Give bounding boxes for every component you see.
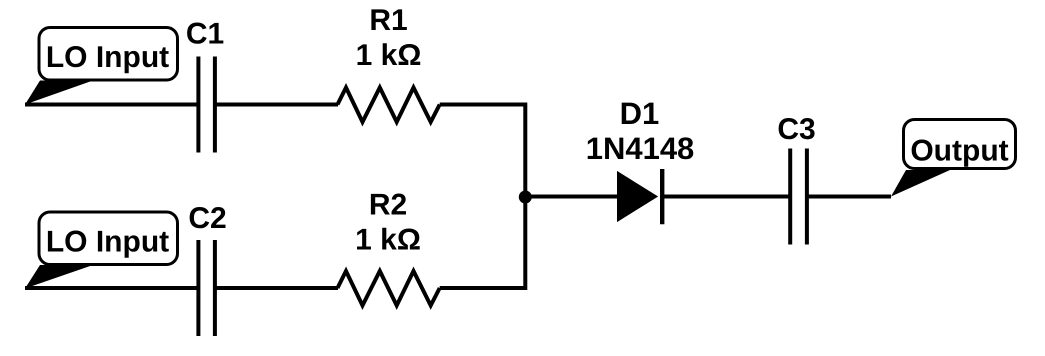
- svg-text:1N4148: 1N4148: [586, 131, 695, 166]
- diode D1: [618, 169, 663, 224]
- wire: summing node to D1 anode: [525, 195, 619, 199]
- svg-text:C2: C2: [188, 202, 226, 235]
- svg-text:1 kΩ: 1 kΩ: [356, 39, 422, 72]
- svg-text:LO Input: LO Input: [46, 41, 169, 74]
- callout bubble: LO Input (bottom): [25, 212, 178, 289]
- capacitor C2: [198, 240, 215, 336]
- wire: R1 and R2 outputs to summing node (right vertical bus): [440, 105, 526, 289]
- wire: C3 to output: [806, 195, 891, 199]
- callout bubble: Output: [891, 120, 1016, 197]
- svg-text:D1: D1: [620, 96, 660, 131]
- svg-text:C3: C3: [777, 113, 815, 146]
- svg-text:R2: R2: [369, 189, 407, 222]
- wire: C2 to R2: [215, 286, 338, 290]
- svg-text:C1: C1: [186, 18, 224, 51]
- capacitor C3: [790, 149, 807, 245]
- svg-text:Output: Output: [910, 135, 1008, 168]
- resistor R2: [338, 271, 440, 306]
- svg-text:LO Input: LO Input: [46, 226, 169, 259]
- wire: C1 to R1: [215, 103, 338, 107]
- wire: D1 cathode to C3: [662, 195, 791, 199]
- svg-text:1 kΩ: 1 kΩ: [355, 224, 421, 257]
- junction node: summing point: [519, 191, 532, 204]
- callout bubble: LO Input (top): [25, 28, 178, 105]
- resistor R1: [338, 88, 440, 123]
- wire: top input lead to C1: [25, 103, 198, 107]
- svg-text:R1: R1: [369, 4, 407, 37]
- capacitor C1: [198, 57, 215, 153]
- wire: bottom input lead to C2: [25, 286, 198, 290]
